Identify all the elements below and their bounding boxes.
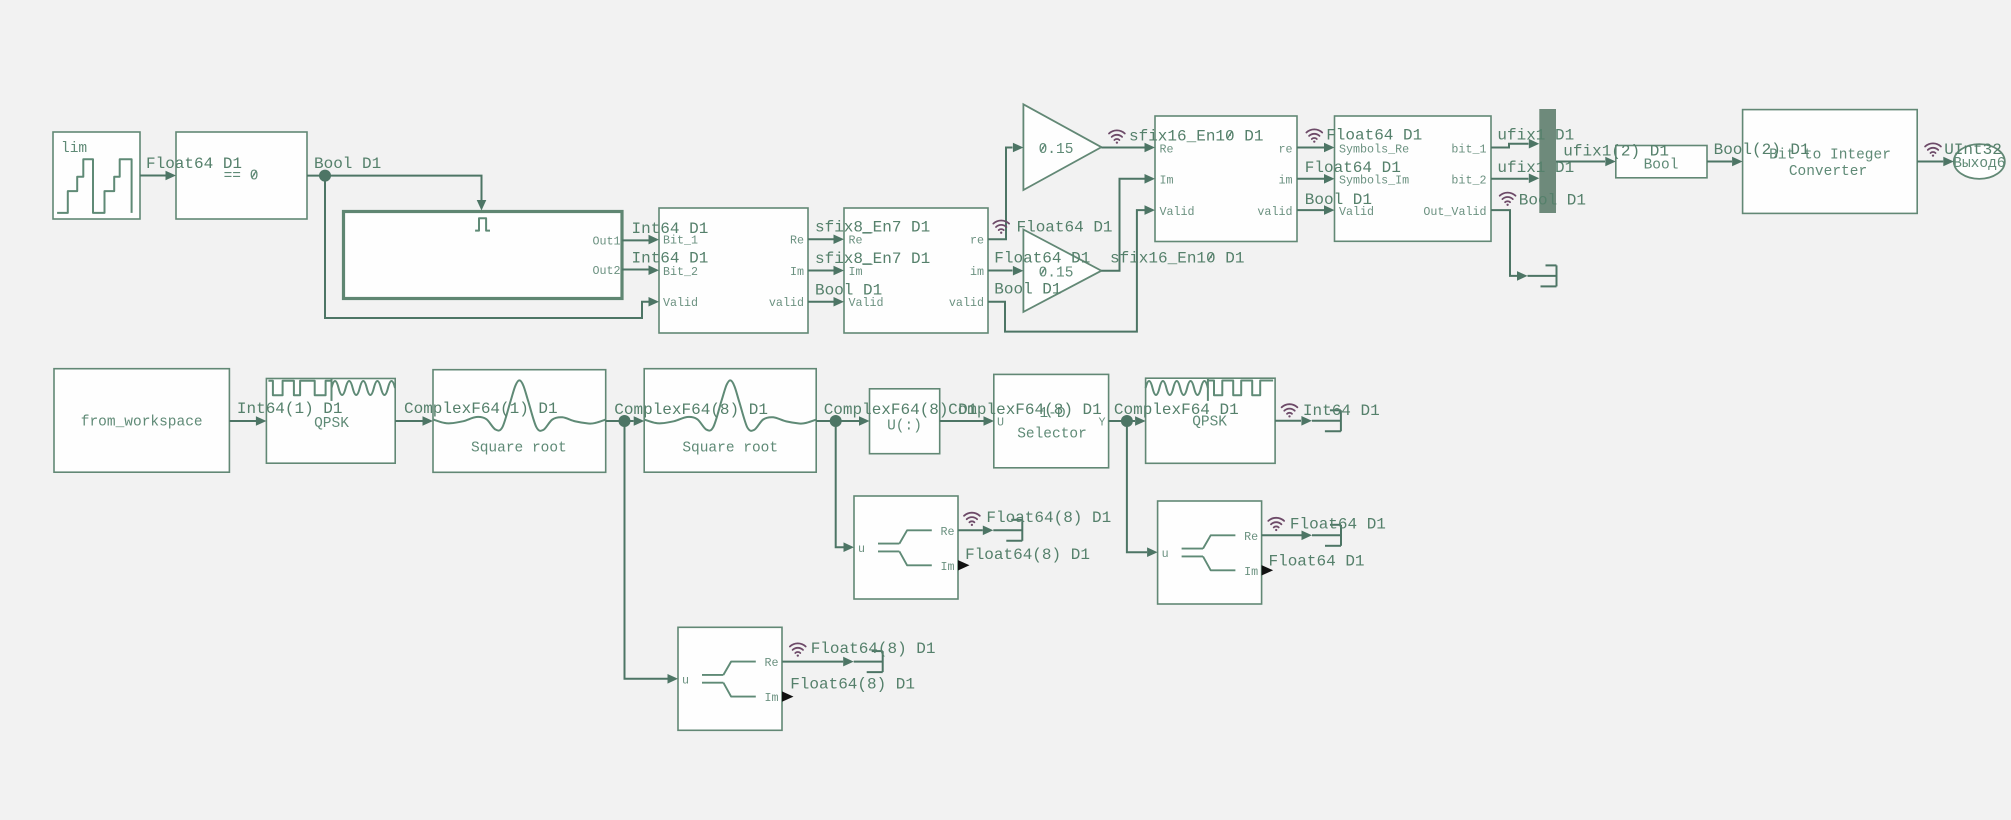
svg-text:ComplexF64(8) D1: ComplexF64(8) D1 (614, 401, 768, 419)
svg-text:Float64 D1: Float64 D1 (1269, 553, 1365, 571)
svg-text:Float64 D1: Float64 D1 (1326, 127, 1422, 145)
svg-text:Out_Valid: Out_Valid (1423, 205, 1486, 219)
svg-text:Float64 D1: Float64 D1 (1290, 516, 1386, 534)
svg-text:Float64(8) D1: Float64(8) D1 (986, 509, 1111, 527)
svg-text:Re: Re (790, 234, 804, 248)
svg-text:Bool(2) D1: Bool(2) D1 (1714, 141, 1810, 159)
svg-text:Float64 D1: Float64 D1 (994, 250, 1090, 268)
svg-text:Square root: Square root (471, 441, 567, 457)
svg-text:Converter: Converter (1789, 164, 1867, 180)
svg-text:0.15: 0.15 (1039, 142, 1074, 158)
svg-text:bit_2: bit_2 (1451, 174, 1486, 188)
svg-text:ufix1(2) D1: ufix1(2) D1 (1563, 143, 1669, 161)
svg-text:Out2: Out2 (592, 264, 620, 278)
svg-text:Int64(1) D1: Int64(1) D1 (237, 400, 343, 418)
svg-text:Int64 D1: Int64 D1 (632, 250, 709, 268)
svg-text:Int64 D1: Int64 D1 (1303, 402, 1380, 420)
svg-text:re: re (970, 234, 984, 248)
svg-text:ComplexF64(1) D1: ComplexF64(1) D1 (404, 400, 558, 418)
svg-text:sfix16_En10 D1: sfix16_En10 D1 (1129, 128, 1263, 146)
svg-text:Square root: Square root (682, 441, 778, 457)
svg-text:Float64(8) D1: Float64(8) D1 (965, 546, 1090, 564)
svg-text:0.15: 0.15 (1039, 266, 1074, 282)
svg-text:Valid: Valid (1160, 205, 1195, 219)
svg-text:Valid: Valid (663, 296, 698, 310)
svg-text:im: im (1278, 174, 1292, 188)
svg-text:Out1: Out1 (592, 235, 620, 249)
svg-text:ComplexF64 D1: ComplexF64 D1 (1114, 401, 1239, 419)
svg-text:Im: Im (1160, 174, 1174, 188)
svg-text:sfix8_En7 D1: sfix8_En7 D1 (815, 219, 930, 237)
svg-text:Float64 D1: Float64 D1 (146, 155, 242, 173)
svg-text:lim: lim (61, 141, 87, 157)
svg-text:Float64 D1: Float64 D1 (1017, 219, 1113, 237)
svg-text:Int64 D1: Int64 D1 (632, 220, 709, 238)
svg-text:Bool D1: Bool D1 (994, 281, 1061, 299)
svg-text:sfix16_En10 D1: sfix16_En10 D1 (1110, 250, 1244, 268)
svg-text:Bool D1: Bool D1 (314, 155, 381, 173)
svg-text:Selector: Selector (1017, 427, 1087, 443)
svg-text:Bool D1: Bool D1 (1305, 191, 1372, 209)
svg-text:Float64(8) D1: Float64(8) D1 (811, 640, 936, 658)
svg-text:U(:): U(:) (887, 419, 922, 435)
svg-text:Bool D1: Bool D1 (1519, 192, 1586, 210)
svg-text:valid: valid (1257, 205, 1292, 219)
svg-text:sfix8_En7 D1: sfix8_En7 D1 (815, 250, 930, 268)
svg-text:QPSK: QPSK (314, 416, 349, 432)
svg-text:UInt32: UInt32 (1944, 141, 2002, 159)
svg-text:im: im (970, 265, 984, 279)
svg-text:Im: Im (790, 265, 804, 279)
svg-text:Float64 D1: Float64 D1 (1305, 159, 1401, 177)
svg-text:valid: valid (949, 296, 984, 310)
svg-text:Float64(8) D1: Float64(8) D1 (790, 676, 915, 694)
svg-text:from_workspace: from_workspace (81, 415, 203, 431)
svg-text:ComplexF64(8) D1: ComplexF64(8) D1 (948, 401, 1102, 419)
svg-text:valid: valid (769, 296, 804, 310)
svg-text:Bool D1: Bool D1 (815, 282, 882, 300)
svg-text:bit_1: bit_1 (1451, 142, 1486, 156)
svg-text:re: re (1278, 142, 1292, 156)
